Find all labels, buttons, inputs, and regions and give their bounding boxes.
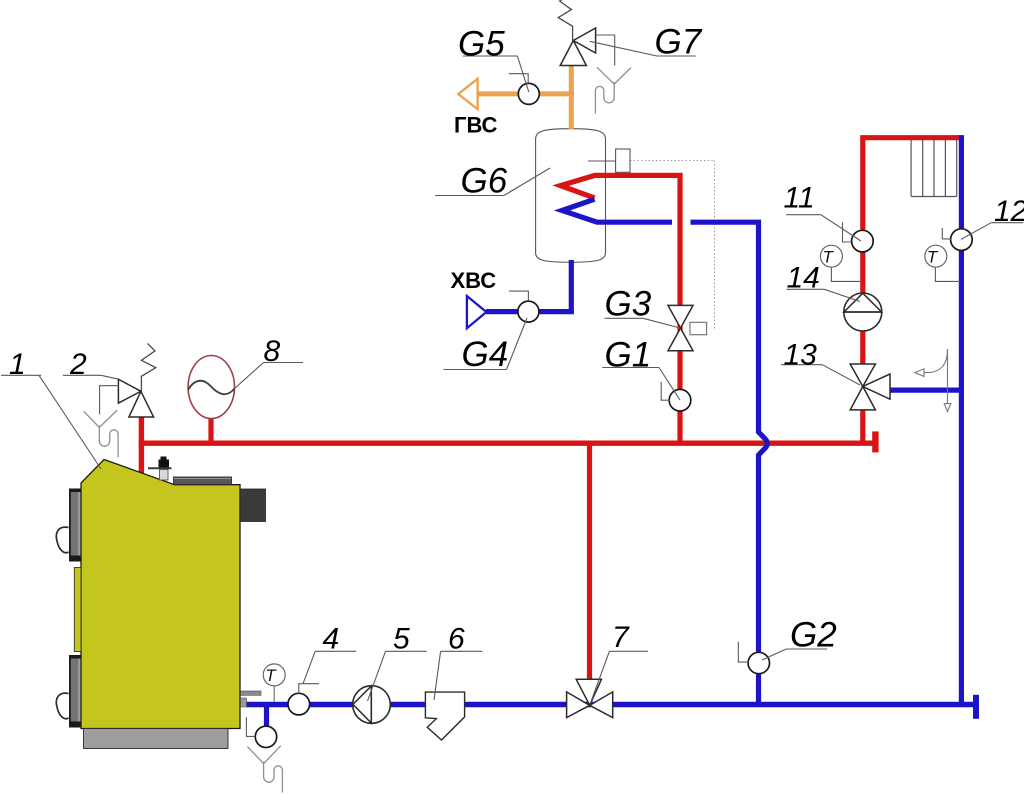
svg-text:11: 11 bbox=[784, 182, 815, 215]
svg-text:1: 1 bbox=[9, 348, 26, 381]
air vent 12 bbox=[951, 229, 973, 251]
boiler middle panel bbox=[74, 568, 81, 652]
safety valve 2 on boiler bbox=[118, 379, 153, 417]
bottom blue main return bbox=[246, 702, 973, 707]
sensor G1 bbox=[669, 389, 691, 411]
cold water arrow bbox=[467, 296, 487, 328]
radiator bbox=[911, 140, 957, 197]
leader label 11 bbox=[786, 215, 861, 242]
valve G4 bbox=[518, 301, 539, 322]
boiler 1 (solid fuel boiler) bbox=[56, 457, 265, 749]
valve 2 spring bbox=[141, 344, 155, 392]
blue cold water inlet line bbox=[486, 260, 571, 312]
leader label G5 bbox=[463, 56, 529, 92]
drain funnel below G7 bbox=[595, 67, 631, 113]
valve 2 outlet bracket bbox=[100, 386, 119, 415]
valve 4 bbox=[288, 693, 310, 715]
radiator blue return vertical bbox=[959, 135, 964, 704]
leader label 6 bbox=[434, 651, 482, 700]
leader label 1 bbox=[1, 375, 101, 469]
leader label 5 bbox=[368, 651, 427, 701]
svg-text:ХВС: ХВС bbox=[451, 268, 497, 293]
red below valve 13 bbox=[860, 408, 865, 443]
boiler top gray strip bbox=[174, 477, 232, 485]
svg-text:7: 7 bbox=[612, 621, 630, 654]
svg-text:T: T bbox=[823, 247, 835, 266]
svg-text:T: T bbox=[265, 666, 277, 685]
svg-text:8: 8 bbox=[264, 335, 281, 368]
radiator red riser bbox=[860, 140, 865, 366]
red main line end bar bbox=[872, 431, 878, 452]
red drop to mixing valve 7 bbox=[587, 443, 592, 681]
blue coil return bbox=[562, 199, 672, 222]
orange tank top riser bbox=[569, 64, 574, 130]
valve G7 spring bbox=[558, 0, 572, 41]
boiler lower door handle bbox=[56, 693, 68, 719]
boiler base plinth bbox=[84, 729, 229, 749]
red coil feed horizontal bbox=[561, 175, 683, 198]
blue from valve 13 to return bbox=[888, 388, 961, 393]
leader label G6 bbox=[435, 168, 550, 196]
valve G5 bbox=[518, 83, 539, 104]
leader label 12 bbox=[942, 223, 1023, 240]
svg-text:T: T bbox=[927, 247, 939, 266]
thermometer T left bottom bbox=[263, 664, 285, 702]
leader label 13 bbox=[781, 365, 860, 385]
filter 6 bbox=[425, 692, 464, 740]
mixing valve 13 bbox=[850, 364, 890, 410]
sensor G2 bbox=[748, 652, 769, 673]
blue drain branch under boiler bbox=[264, 705, 269, 728]
leader label G1 bbox=[602, 368, 680, 401]
leader label G3 bbox=[605, 318, 681, 328]
leader label 7 bbox=[591, 651, 649, 703]
bracket boiler drain bbox=[246, 717, 255, 736]
dotted sensor link from tank sensor to valve G3 actuator bbox=[630, 161, 715, 330]
svg-text:G2: G2 bbox=[790, 616, 837, 655]
red riser to tank coil through G3 bbox=[677, 173, 682, 443]
drain funnel below boiler drain bbox=[247, 746, 282, 793]
boiler upper door handle bbox=[56, 527, 68, 553]
leader label 2 bbox=[63, 375, 118, 379]
drain funnel below valve 2 bbox=[84, 410, 118, 457]
svg-text:G1: G1 bbox=[605, 336, 652, 375]
storage tank G6 body bbox=[536, 129, 606, 263]
boiler drain valve bbox=[255, 726, 276, 747]
svg-text:G5: G5 bbox=[458, 25, 505, 64]
leader label G7 bbox=[590, 41, 696, 56]
pump 5 bbox=[353, 686, 391, 724]
mixing valve 7 bbox=[567, 679, 613, 717]
svg-text:6: 6 bbox=[448, 623, 465, 656]
leader label 14 bbox=[787, 289, 861, 301]
radiator red top horizontal bbox=[863, 138, 962, 141]
blue main end bar bbox=[973, 695, 979, 719]
DHW arrow (to consumers) bbox=[458, 79, 477, 110]
svg-text:5: 5 bbox=[393, 623, 410, 656]
boiler body bbox=[81, 460, 240, 729]
expansion vessel 8 bbox=[188, 356, 234, 444]
orange DHW line bbox=[478, 91, 574, 96]
boiler lower door bbox=[69, 655, 81, 728]
boiler chimney thermometer bbox=[161, 457, 167, 461]
svg-text:2: 2 bbox=[69, 348, 87, 381]
red riser from boiler to safety valve 2 bbox=[139, 417, 144, 478]
svg-text:12: 12 bbox=[994, 195, 1024, 228]
motorized valve G3 bbox=[668, 305, 693, 350]
leader label G4 bbox=[443, 291, 528, 369]
svg-text:G3: G3 bbox=[605, 285, 652, 324]
svg-text:14: 14 bbox=[787, 262, 820, 295]
leader label G2 bbox=[738, 642, 827, 662]
thermometer T return bbox=[925, 245, 960, 281]
thermometer T supply bbox=[820, 245, 861, 281]
boiler right pipe stubs bbox=[241, 691, 262, 695]
valve G7 outlet bracket bbox=[596, 35, 615, 66]
svg-text:ГВС: ГВС bbox=[454, 113, 498, 138]
svg-text:4: 4 bbox=[323, 623, 340, 656]
blue coil return right of red riser bbox=[691, 222, 768, 704]
main red supply line bbox=[139, 441, 873, 446]
air vent 11 bbox=[852, 230, 874, 252]
svg-text:G4: G4 bbox=[462, 335, 509, 374]
pump 14 bbox=[844, 293, 882, 331]
svg-text:G6: G6 bbox=[461, 162, 508, 201]
tank sensor pocket bbox=[588, 160, 616, 162]
leader label 8 bbox=[234, 363, 303, 389]
safety valve G7 on tank bbox=[560, 28, 595, 66]
leader label 4 bbox=[299, 651, 356, 693]
svg-text:13: 13 bbox=[784, 339, 818, 372]
flow direction arrows near valve 13 bbox=[915, 349, 951, 412]
boiler flue box bbox=[240, 489, 266, 522]
boiler upper door bbox=[69, 489, 81, 562]
G3 actuator box bbox=[690, 322, 707, 334]
svg-text:G7: G7 bbox=[655, 23, 703, 62]
